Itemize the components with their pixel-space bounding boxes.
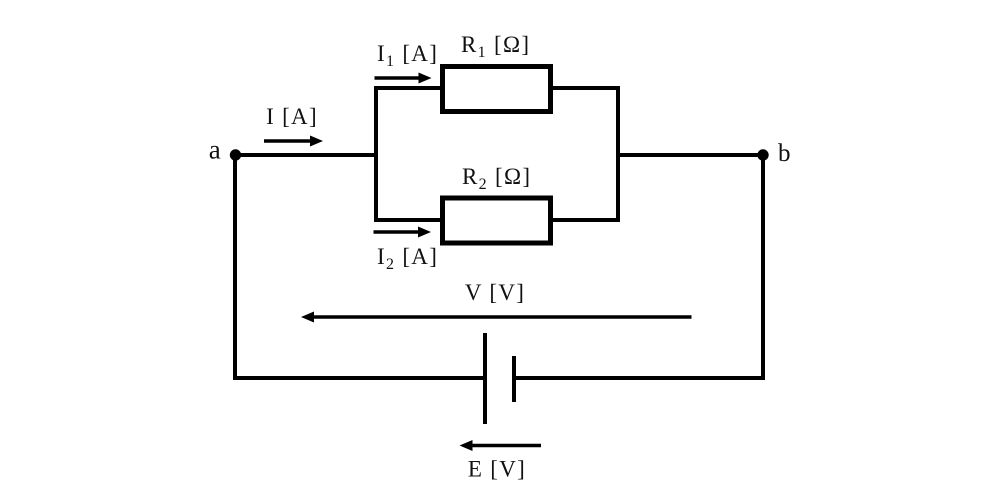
svg-text:a: a: [209, 135, 222, 165]
svg-text:I1 [A]: I1 [A]: [377, 41, 438, 70]
svg-text:R1 [Ω]: R1 [Ω]: [461, 32, 530, 61]
arrow: EMF E (pointing left): [471, 444, 542, 448]
svg-text:E [V]: E [V]: [468, 457, 526, 482]
wire: right outer vertical: [761, 155, 765, 380]
svg-text:I2 [A]: I2 [A]: [377, 244, 438, 273]
wire: top branch right segment: [551, 86, 620, 90]
arrow: current I1: [375, 76, 421, 80]
battery E negative plate (short): [512, 356, 516, 402]
resistor R2: [443, 198, 551, 243]
arrow: current I2: [374, 230, 421, 234]
svg-text:R2 [Ω]: R2 [Ω]: [462, 164, 531, 193]
arrow: voltage V (pointing left): [312, 315, 692, 319]
wire: bottom left segment to battery: [233, 376, 485, 380]
resistor R1: [443, 67, 551, 112]
node b: [757, 149, 768, 160]
wire: middle horizontal to node b: [616, 153, 763, 157]
wire: left branch vertical: [374, 86, 378, 222]
svg-text:b: b: [778, 140, 792, 167]
svg-text:V [V]: V [V]: [465, 280, 525, 305]
svg-text:I [A]: I [A]: [266, 104, 318, 129]
wire: top branch left segment: [374, 86, 442, 90]
wire: left outer vertical: [233, 155, 237, 380]
wire: right branch vertical: [616, 86, 620, 222]
node a: [230, 149, 241, 160]
battery E positive plate (long): [483, 333, 487, 424]
wire: bottom branch left segment: [374, 218, 442, 222]
wire: bottom branch right segment: [551, 218, 620, 222]
wire: bottom right segment from battery: [514, 376, 765, 380]
wire: main horizontal from node a to left branch vertical: [235, 153, 378, 157]
arrow: current I: [264, 139, 312, 143]
